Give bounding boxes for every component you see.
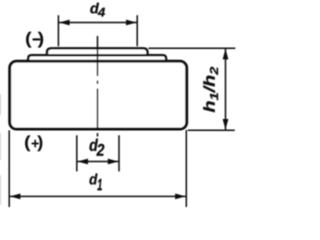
d1 left arrowhead xyxy=(10,194,21,200)
h dimension line xyxy=(225,49,227,130)
d4 left arrowhead xyxy=(59,20,70,26)
d4 left extension line xyxy=(57,15,59,46)
d2 left arrowhead xyxy=(78,159,89,165)
battery can body (positive case) xyxy=(10,61,187,129)
d1 right arrowhead xyxy=(175,194,186,200)
d2 dimension line xyxy=(77,161,118,163)
d1 left extension line xyxy=(8,130,10,207)
centerline (dash-dot axis) xyxy=(97,36,99,137)
d1 dimension line xyxy=(10,195,186,197)
h bottom arrowhead xyxy=(223,119,229,130)
h top arrowhead xyxy=(223,49,229,60)
d4 right extension line xyxy=(136,15,138,46)
h bottom extension line (from can bottom to right) xyxy=(188,129,235,131)
d1 right extension line xyxy=(185,130,187,207)
d2 left extension line xyxy=(76,135,78,171)
label d2 xyxy=(90,139,105,156)
d4 dimension line xyxy=(59,22,137,24)
label (-) negative terminal xyxy=(26,32,43,48)
label (+) positive terminal xyxy=(25,135,42,151)
d2 right arrowhead xyxy=(108,159,119,165)
scan artifact marks at left page edge xyxy=(0,94,2,115)
h top extension line (from cap top to right) xyxy=(149,47,236,49)
label d4 xyxy=(90,3,105,17)
negative cap plate (top, diameter d4) xyxy=(47,48,148,70)
label h1/h2 (rotated) xyxy=(203,67,218,112)
d2 right extension line xyxy=(118,135,120,171)
gasket plate (middle layer) xyxy=(28,55,166,74)
d4 right arrowhead xyxy=(126,20,137,26)
label d1 xyxy=(90,174,102,191)
